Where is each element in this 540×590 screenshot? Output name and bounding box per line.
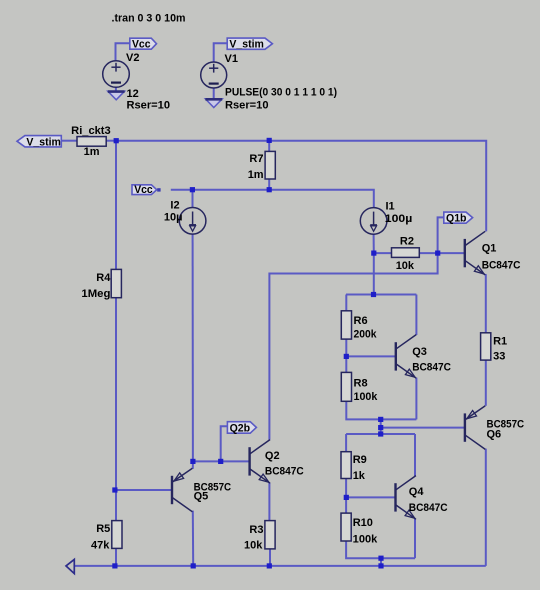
wire Q1b flag tail [438, 217, 444, 253]
node junction R10 bottom net [378, 556, 383, 561]
svg-text:R2: R2 [400, 236, 414, 248]
node junction I1 R2 [371, 251, 376, 256]
wire Q2 base [193, 460, 250, 462]
wire R9 top lead [345, 434, 347, 452]
wire Vcc rail to I2 top [192, 190, 194, 208]
wire Q1 emitter to R1 [484, 275, 487, 333]
node junction R7 top [267, 138, 272, 143]
wire I2 bottom to Q2 base node [192, 234, 194, 461]
svg-text:I1: I1 [386, 201, 395, 213]
wire Q2 collector to Q1 base node [269, 253, 437, 440]
node junction Vcc rail at I2 [190, 187, 195, 192]
flag Vcc at V2 [130, 38, 157, 50]
flag Vcc at rail [132, 184, 157, 196]
svg-text:Q6: Q6 [487, 428, 502, 440]
node junction R9 top net [378, 431, 383, 436]
resistor R5 [112, 521, 122, 549]
svg-text:10k: 10k [244, 540, 263, 552]
wire Q3 collector up [415, 295, 417, 336]
wire Q6 collector to ground rail [485, 449, 487, 566]
svg-text:R9: R9 [353, 454, 367, 466]
wire R7 top lead [268, 141, 270, 152]
svg-text:R3: R3 [249, 524, 263, 536]
wire R5 to ground rail [115, 548, 117, 566]
transistor Q5 BC857C PNP [172, 468, 192, 512]
svg-text:I2: I2 [170, 199, 179, 211]
transistor Q4 BC847C NPN [396, 476, 416, 520]
wire R9 to R10 [345, 479, 347, 514]
svg-text:1k: 1k [353, 470, 366, 482]
node junction Q4 base [344, 495, 349, 500]
wire V_stim input flag to Ri_ckt3 [61, 140, 77, 142]
wire ground rail [74, 565, 486, 567]
wire Q3 base [346, 355, 396, 357]
wire Q2b flag tail [221, 426, 228, 461]
transistor Q6 BC857C PNP [465, 406, 485, 450]
wire Q6 base [381, 427, 465, 429]
wire Q1 base [438, 252, 465, 254]
wire top rail V_stim net to Q1 collector [116, 141, 486, 232]
wire Q5 emitter up [192, 461, 194, 468]
resistor Ri_ckt3 [77, 137, 106, 147]
svg-text:R1: R1 [493, 335, 507, 347]
svg-text:V_stim: V_stim [229, 39, 264, 51]
resistor R3 [265, 521, 275, 549]
voltage source V1 [201, 62, 227, 88]
transistor Q2 BC847C NPN [250, 440, 270, 484]
resistor R7 [265, 151, 275, 179]
current source I2 [179, 208, 206, 235]
node junction Q1 base [435, 251, 440, 256]
resistor R1 [481, 333, 491, 360]
wire R2 left lead [374, 252, 392, 254]
wire R7 bottom lead [268, 179, 270, 190]
node junction R6 top net [371, 292, 376, 297]
node junction Q5 base at left rail [112, 487, 117, 492]
wire R6 top lead [345, 295, 347, 311]
resistor R8 [341, 372, 351, 401]
wire Q3 emitter down [415, 378, 417, 420]
node junction ground rail at R3 [267, 563, 272, 568]
wire Q5 collector down [192, 511, 194, 566]
pin square at Vcc flag [157, 188, 160, 191]
svg-text:100k: 100k [353, 533, 378, 545]
svg-text:R8: R8 [354, 378, 368, 390]
svg-text:V1: V1 [225, 53, 238, 65]
resistor R4 [111, 269, 121, 297]
node junction Q2 base net at Q5 emitter [190, 459, 195, 464]
flag V_stim input [17, 136, 61, 149]
node junction ground rail at Q5 collector [191, 563, 196, 568]
svg-text:47k: 47k [91, 539, 110, 551]
svg-text:BC847C: BC847C [412, 361, 451, 373]
svg-text:Ri_ckt3: Ri_ckt3 [71, 125, 111, 137]
svg-text:PULSE(0 30 0 1 1 1 0 1): PULSE(0 30 0 1 1 1 0 1) [225, 87, 337, 99]
wire R6 to R8 [345, 339, 347, 372]
svg-text:BC847C: BC847C [409, 502, 448, 514]
svg-text:R4: R4 [96, 272, 111, 284]
transistor Q1 BC847C NPN [465, 231, 485, 275]
svg-text:Q2: Q2 [265, 450, 280, 462]
svg-text:1m: 1m [248, 169, 264, 181]
svg-text:1Meg: 1Meg [81, 288, 110, 300]
wire R8 net to R9 net [380, 419, 382, 434]
svg-text:Q5: Q5 [194, 491, 209, 503]
wire Q5 base [115, 489, 172, 491]
wire R3 to ground rail [269, 549, 271, 566]
svg-text:R7: R7 [249, 153, 263, 165]
wire R2 right lead [419, 252, 437, 254]
svg-text:10µ: 10µ [164, 211, 183, 223]
node junction ground rail at R10 net [378, 563, 383, 568]
node junction ground rail at R5 [112, 563, 117, 568]
wire R10 bottom net [346, 541, 415, 558]
svg-text:.tran 0 3 0 10m: .tran 0 3 0 10m [112, 13, 186, 25]
wire Ri_ckt3 to node [106, 140, 116, 142]
wire R2 node down to R6 top net [373, 253, 375, 294]
svg-text:Q2b: Q2b [230, 423, 251, 435]
wire V1 to ground [213, 88, 215, 100]
node junction Q6 base net [378, 425, 383, 430]
wire V1 top to V_stim flag [214, 43, 228, 62]
wire Q4 collector up [414, 434, 416, 476]
wire Q2 emitter to R3 [268, 483, 270, 521]
node junction Q2b flag [218, 459, 223, 464]
svg-text:R5: R5 [96, 523, 110, 535]
svg-text:BC847C: BC847C [265, 466, 304, 478]
wire V2 to ground [115, 87, 117, 91]
resistor R9 [341, 452, 351, 479]
node junction Vcc rail at R7 [267, 187, 272, 192]
svg-text:100µ: 100µ [385, 213, 413, 225]
ground at V2 [108, 91, 125, 100]
resistor R2 [392, 248, 420, 258]
wire I1 bottom to R2 node [373, 234, 375, 253]
resistor R6 [341, 311, 351, 339]
flag V_stim at V1 [227, 38, 272, 51]
svg-text:200k: 200k [354, 329, 378, 341]
wire R8 bottom net [346, 401, 416, 419]
current source I1 [360, 208, 387, 235]
svg-text:V_stim: V_stim [26, 136, 61, 148]
resistor R10 [341, 513, 351, 541]
flag Q1b [444, 212, 473, 225]
wire R1 to Q6 emitter [485, 360, 487, 406]
svg-text:Vcc: Vcc [132, 39, 151, 51]
svg-text:Rser=10: Rser=10 [225, 100, 269, 112]
svg-text:Rser=10: Rser=10 [127, 100, 171, 112]
wire R4 to R5 [115, 298, 117, 521]
svg-text:Vcc: Vcc [134, 184, 153, 196]
transistor Q3 BC847C NPN [396, 335, 416, 379]
svg-text:1m: 1m [84, 146, 100, 158]
svg-text:Q1b: Q1b [446, 213, 467, 225]
svg-text:V2: V2 [126, 52, 139, 64]
svg-text:Q1: Q1 [482, 242, 497, 254]
voltage source V2 [103, 61, 130, 88]
flag Q2b [227, 422, 256, 435]
wire left rail to R4 [115, 141, 117, 270]
node junction V_stim net at Ri_ckt3 [114, 138, 119, 143]
svg-text:Q3: Q3 [412, 346, 427, 358]
ground at V1 [205, 99, 222, 108]
wire R6 top net [346, 294, 416, 296]
ground rail left arrow port [66, 559, 74, 573]
wire Q4 emitter down [414, 519, 416, 559]
svg-text:R10: R10 [353, 517, 373, 529]
node junction R8 bottom net [378, 417, 383, 422]
svg-text:BC847C: BC847C [482, 260, 521, 272]
svg-text:100k: 100k [354, 391, 379, 403]
svg-text:33: 33 [493, 350, 505, 362]
wire Q4 base [346, 496, 395, 498]
svg-text:Q4: Q4 [409, 486, 425, 498]
svg-text:R6: R6 [354, 315, 368, 327]
node junction Q3 base [344, 354, 349, 359]
wire V2 top to Vcc flag [116, 43, 130, 61]
svg-text:12: 12 [127, 88, 139, 100]
svg-text:10k: 10k [396, 260, 415, 272]
wire R9 top net [346, 433, 415, 435]
wire R10 net to ground rail [380, 558, 382, 566]
wire Vcc rail to I1 [171, 190, 374, 208]
